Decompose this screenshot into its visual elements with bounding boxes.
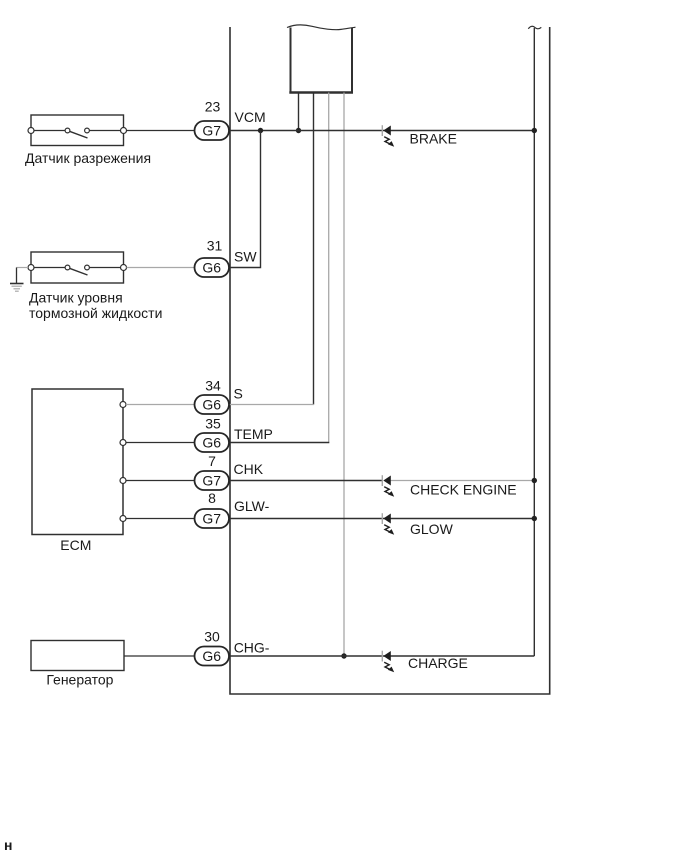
- connector oval G6 pin 35 (TEMP): [195, 433, 230, 452]
- bus wire (warning-lamp feed) with break squiggle at top: [528, 26, 541, 656]
- wire ground lead (gray): [17, 267, 29, 269]
- wire CHK row: LED to bus (gray): [391, 480, 535, 482]
- vacuum switch box: [28, 115, 127, 146]
- svg-text:31: 31: [207, 238, 223, 254]
- wire TEMP row: oval to riser: [229, 442, 329, 444]
- svg-text:7: 7: [208, 453, 216, 469]
- ECM box: [32, 389, 123, 535]
- svg-text:Датчик разрежения: Датчик разрежения: [25, 150, 151, 166]
- ECM pin circle row S: [120, 402, 126, 408]
- svg-text:н: н: [4, 837, 12, 853]
- junction VCM/bus: [532, 128, 537, 133]
- svg-text:TEMP: TEMP: [234, 426, 273, 442]
- svg-text:BRAKE: BRAKE: [410, 131, 457, 147]
- junction wire4/CHARGE: [341, 653, 346, 658]
- svg-text:Генератор: Генератор: [46, 672, 113, 688]
- ECM pin circle row CHK: [120, 478, 126, 484]
- LED indicator CHARGE: [382, 651, 394, 673]
- wire CHK row: oval to LED: [229, 480, 383, 482]
- wire SW tap: down from VCM line, left to G6 oval: [229, 131, 261, 268]
- svg-text:G6: G6: [202, 435, 221, 451]
- ECM pin circle row GLW: [120, 516, 126, 522]
- ECM pin circle row TEMP: [120, 440, 126, 446]
- meter sub-box (partial, wavy top): [287, 25, 356, 93]
- svg-text:GLOW: GLOW: [410, 521, 454, 537]
- connector oval G6 pin 31 (SW): [195, 258, 230, 277]
- wire vacuum switch to G7: [127, 130, 195, 132]
- connector oval G7 pin 8 (GLW): [195, 509, 230, 528]
- connector oval G7 pin 23 (VCM): [195, 121, 230, 140]
- svg-text:ECM: ECM: [60, 537, 91, 553]
- svg-text:CHG-: CHG-: [234, 640, 270, 656]
- svg-text:8: 8: [208, 490, 216, 506]
- svg-text:Датчик уровня: Датчик уровня: [29, 289, 123, 305]
- svg-text:34: 34: [205, 378, 221, 394]
- wire 2: meter box down to S line: [313, 93, 315, 405]
- wire ECM to TEMP oval: [126, 442, 195, 444]
- connector oval G6 pin 30 (CHG): [195, 647, 230, 666]
- svg-text:SW: SW: [234, 249, 257, 265]
- wire brake fluid switch to G6 (gray): [127, 267, 195, 269]
- svg-text:S: S: [234, 386, 243, 402]
- combination meter panel boundary: [230, 27, 550, 694]
- svg-text:G7: G7: [202, 473, 221, 489]
- wire ECM to CHK oval: [126, 480, 195, 482]
- svg-text:G6: G6: [202, 260, 221, 276]
- svg-text:G7: G7: [202, 511, 221, 527]
- junction VCM/SW tap: [258, 128, 263, 133]
- svg-text:35: 35: [205, 416, 221, 432]
- junction wire1/VCM: [296, 128, 301, 133]
- svg-text:G6: G6: [202, 648, 221, 664]
- LED indicator BRAKE: [382, 125, 394, 147]
- wire generator to G6: [124, 655, 195, 657]
- wire S row (gray): oval to riser: [229, 404, 314, 406]
- wire 4: meter box down to CHARGE line (gray): [343, 93, 345, 657]
- connector oval G7 pin 7 (CHK): [195, 471, 230, 490]
- LED indicator GLOW: [382, 513, 394, 535]
- connector oval G6 pin 34 (S): [195, 395, 230, 414]
- svg-text:G6: G6: [202, 397, 221, 413]
- svg-text:CHECK ENGINE: CHECK ENGINE: [410, 482, 517, 498]
- wire CHG row: oval to bus corner: [229, 655, 534, 657]
- generator box: [31, 641, 124, 671]
- junction CHK/bus: [532, 478, 537, 483]
- svg-text:G7: G7: [202, 123, 221, 139]
- svg-text:GLW-: GLW-: [234, 498, 270, 514]
- wire GLW row: oval to bus: [229, 518, 534, 520]
- wire ECM to GLW oval: [126, 518, 195, 520]
- svg-text:CHARGE: CHARGE: [408, 655, 468, 671]
- brake fluid level switch box: [28, 252, 127, 283]
- svg-text:30: 30: [204, 629, 220, 645]
- wire ECM to S oval (gray): [126, 404, 195, 406]
- ground symbol: [10, 268, 24, 292]
- wire VCM row: oval to bus: [229, 130, 534, 132]
- svg-text:VCM: VCM: [235, 109, 266, 125]
- LED indicator CHECK ENGINE: [382, 475, 394, 497]
- svg-text:тормозной жидкости: тормозной жидкости: [29, 305, 162, 321]
- svg-text:CHK: CHK: [234, 461, 264, 477]
- wire 1: meter box to VCM line: [298, 93, 300, 131]
- junction GLW/bus: [532, 516, 537, 521]
- svg-text:23: 23: [205, 99, 221, 115]
- wire 3: meter box down to TEMP line (gray): [328, 93, 330, 443]
